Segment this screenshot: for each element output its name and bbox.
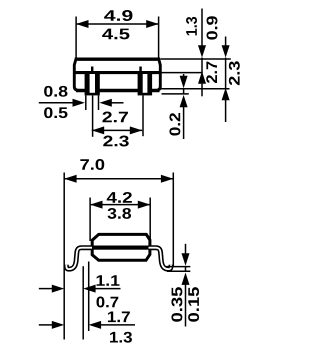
body outline sides and bottom corners	[74, 60, 160, 91]
dim 7.0 dimension line	[64, 178, 173, 180]
arrowhead right 4.9	[146, 20, 158, 28]
stub between foot lines at 0.35 arrows	[185, 267, 187, 272]
body bottom line	[76, 89, 160, 93]
label 4.5	[102, 29, 129, 40]
right extension line b	[161, 72, 203, 74]
label 0.7	[97, 297, 119, 308]
right lead stub above line B	[139, 67, 142, 73]
label 0.2 rot	[169, 113, 180, 136]
label 2.7 bottom	[102, 112, 128, 123]
foot top reference line	[166, 266, 190, 268]
dim bottom 2.7/2.3 dimension line (lead pitch)	[92, 129, 142, 131]
dim 0.8/0.5 right arrow	[108, 102, 124, 104]
stub between body bottom and seating plane at 0.2	[183, 89, 185, 94]
right lead gull wing	[149, 248, 172, 269]
dim 0.35/0.15 down arrow	[185, 244, 187, 254]
label 0.35 rot	[171, 287, 182, 322]
label 3.8	[108, 208, 132, 219]
label 0.5	[44, 107, 67, 118]
right extension line d (body bottom)	[161, 88, 230, 90]
label 4.2	[107, 192, 132, 203]
dim 4.9/4.5 extension line right	[158, 17, 160, 58]
extension line below right leg center for lead pitch dim	[142, 95, 144, 136]
label 1.7	[108, 312, 130, 323]
dim 0.2 arrows	[183, 74, 185, 80]
dim 4.2/3.8 dimension line	[90, 204, 150, 206]
extension line for 1.7/1.3	[88, 262, 90, 332]
label 2.3 rot	[229, 61, 240, 85]
right extension line a (top surface)	[161, 58, 231, 60]
foot bottom reference line	[167, 270, 190, 272]
body side view outline	[92, 234, 150, 260]
label 1.3 rot	[186, 17, 197, 35]
body inner line B	[76, 71, 160, 74]
dim 4.9/4.5 extension line left	[75, 17, 77, 58]
arrowhead left 4.9	[76, 20, 88, 28]
left lead stub above line B	[91, 67, 93, 73]
seating plane short line	[162, 93, 189, 95]
dim 4.9/4.5 dimension line	[76, 23, 159, 25]
dim 4.2/3.8 extension lines	[89, 198, 91, 242]
extension line below left leg center for lead pitch dim	[92, 95, 94, 136]
extension line for 1.1/0.7	[82, 266, 84, 339]
dim 7.0 extension line right	[172, 173, 174, 266]
dim 7.0 extension line left	[63, 173, 65, 340]
label 4.9	[104, 10, 132, 21]
dim 0.8/0.5 left arrow	[39, 102, 74, 104]
left lead gull wing	[66, 248, 92, 269]
left leg block	[85, 71, 100, 95]
dim 0.35/0.15 up arrow	[182, 273, 190, 285]
label 0.8	[44, 86, 67, 97]
label 7.0	[80, 159, 104, 170]
dim 2.7/2.3 vertical: shaft and arrows	[225, 37, 227, 48]
label 1.1	[97, 275, 120, 286]
dim 1.7/1.3 row	[39, 324, 55, 326]
dim 1.1/0.7 row	[39, 288, 55, 290]
label 2.7 rot	[206, 62, 217, 83]
dim 1.3/0.9 vertical: upper shaft and arrows	[201, 9, 203, 48]
right leg block	[138, 71, 153, 95]
label 1.3	[110, 332, 132, 343]
body interior lead band	[92, 246, 150, 250]
body top surface line	[75, 58, 161, 61]
extension lines below left leg (leg edges)	[85, 95, 87, 110]
label 2.3 bottom	[103, 136, 129, 147]
label 0.9 rot	[207, 16, 218, 39]
label 0.15 rot	[188, 287, 199, 322]
